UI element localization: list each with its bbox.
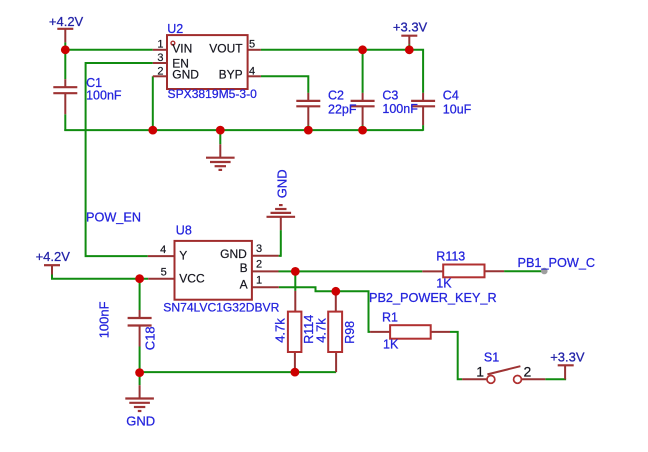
svg-text:2: 2 <box>157 65 163 77</box>
svg-text:4.7k: 4.7k <box>273 318 288 343</box>
svg-text:B: B <box>240 261 248 275</box>
svg-text:Y: Y <box>179 248 187 262</box>
svg-text:+3.3V: +3.3V <box>550 350 585 365</box>
svg-text:GND: GND <box>172 68 199 82</box>
svg-text:1K: 1K <box>383 337 399 351</box>
svg-text:VCC: VCC <box>179 272 205 286</box>
svg-text:10uF: 10uF <box>443 102 472 116</box>
svg-text:1K: 1K <box>436 276 452 290</box>
svg-text:S1: S1 <box>484 351 499 365</box>
svg-text:100nF: 100nF <box>382 102 418 116</box>
svg-text:PB1_POW_C: PB1_POW_C <box>518 256 596 270</box>
svg-text:C1: C1 <box>86 76 102 90</box>
svg-text:SN74LVC1G32DBVR: SN74LVC1G32DBVR <box>163 301 279 315</box>
svg-text:+4.2V: +4.2V <box>49 14 84 29</box>
svg-text:U2: U2 <box>167 22 183 36</box>
svg-text:BYP: BYP <box>219 68 243 82</box>
svg-text:R114: R114 <box>302 315 316 344</box>
svg-text:4: 4 <box>249 65 255 77</box>
svg-text:2: 2 <box>524 364 532 380</box>
svg-text:GND: GND <box>275 169 290 198</box>
svg-text:100nF: 100nF <box>97 301 112 338</box>
svg-text:R1: R1 <box>382 310 398 324</box>
svg-text:22pF: 22pF <box>328 102 357 116</box>
svg-text:1: 1 <box>256 274 262 286</box>
svg-text:1: 1 <box>157 39 163 51</box>
svg-text:VIN: VIN <box>172 42 192 56</box>
svg-text:U8: U8 <box>176 224 192 238</box>
svg-text:VOUT: VOUT <box>209 42 243 56</box>
svg-text:4: 4 <box>160 244 166 256</box>
svg-text:3: 3 <box>256 243 262 255</box>
svg-text:C3: C3 <box>382 89 398 103</box>
svg-text:C18: C18 <box>143 326 158 350</box>
svg-text:5: 5 <box>249 39 255 51</box>
svg-text:C4: C4 <box>443 89 459 103</box>
svg-text:+4.2V: +4.2V <box>36 249 71 264</box>
svg-text:3: 3 <box>157 52 163 64</box>
svg-text:5: 5 <box>161 267 167 279</box>
svg-text:100nF: 100nF <box>86 89 122 103</box>
svg-text:GND: GND <box>126 414 155 429</box>
svg-text:C2: C2 <box>328 89 344 103</box>
svg-text:1: 1 <box>476 364 484 380</box>
svg-text:GND: GND <box>220 247 247 261</box>
svg-text:POW_EN: POW_EN <box>86 211 141 225</box>
svg-text:PB2_POWER_KEY_R: PB2_POWER_KEY_R <box>369 291 497 305</box>
svg-text:A: A <box>240 278 248 292</box>
svg-text:+3.3V: +3.3V <box>393 20 428 35</box>
svg-text:2: 2 <box>256 259 262 271</box>
svg-text:SPX3819M5-3-0: SPX3819M5-3-0 <box>168 87 258 101</box>
svg-text:R98: R98 <box>343 321 357 344</box>
svg-text:R113: R113 <box>436 249 465 263</box>
